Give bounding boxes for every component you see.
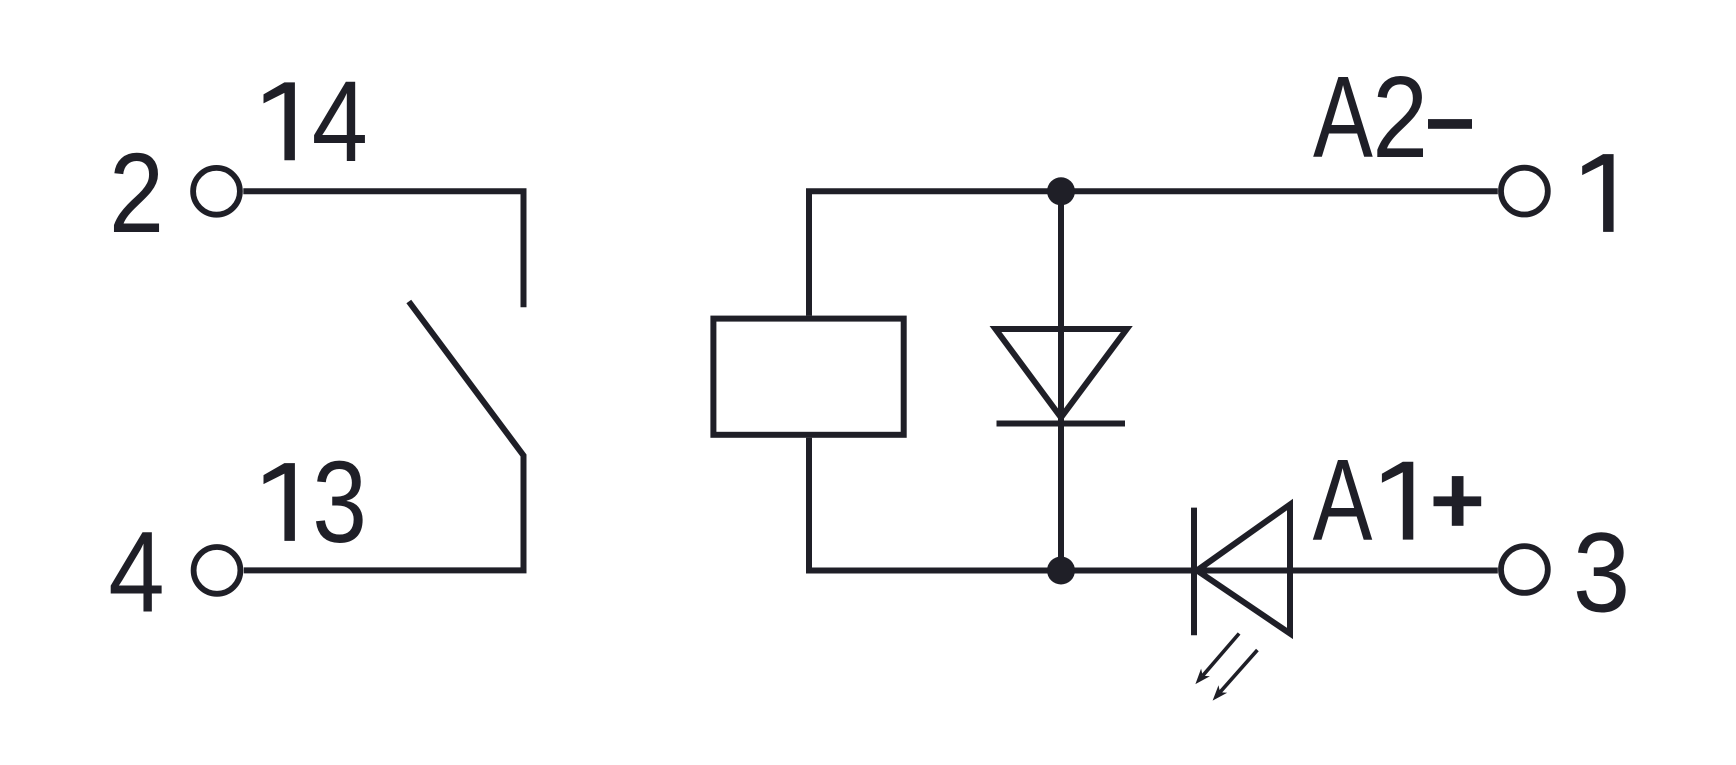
svg-text:3: 3: [312, 437, 367, 566]
label 1 (terminal number): [1582, 154, 1613, 232]
svg-text:4: 4: [108, 507, 164, 636]
svg-text:2: 2: [1372, 52, 1428, 181]
terminal 1 circle: [1501, 168, 1548, 215]
suppression diode cathode bar: [997, 421, 1126, 427]
terminal 4 circle: [194, 547, 241, 594]
label 13 (contact designation): [264, 437, 368, 566]
junction node top: [1047, 177, 1075, 205]
relay coil K1: [713, 319, 903, 435]
svg-text:A: A: [1313, 435, 1373, 565]
label A2- (coil terminal): [1313, 52, 1472, 182]
LED triangle: [1197, 505, 1290, 634]
junction node bottom: [1047, 557, 1075, 585]
suppression diode branch wire: [1058, 191, 1064, 570]
svg-text:2: 2: [109, 130, 164, 257]
top rail from terminal 1 to relay coil: [809, 191, 1498, 315]
terminal 3 circle: [1501, 546, 1548, 593]
bottom rail from relay coil to terminal 3: [809, 438, 1498, 571]
switch blade and wire to terminal 4: [244, 302, 524, 571]
label 14 (contact designation): [264, 57, 368, 186]
svg-text:3: 3: [1573, 509, 1630, 635]
svg-text:A: A: [1313, 52, 1373, 182]
wire from terminal 2 to switch fixed contact: [243, 191, 523, 307]
suppression diode triangle: [996, 329, 1127, 418]
terminal 2 circle: [193, 168, 240, 215]
LED light arrow 1: [1195, 634, 1239, 685]
svg-text:4: 4: [312, 57, 368, 186]
LED cathode bar: [1191, 508, 1197, 636]
LED light arrow 2: [1213, 650, 1258, 701]
label A1+ (coil terminal): [1313, 435, 1482, 565]
